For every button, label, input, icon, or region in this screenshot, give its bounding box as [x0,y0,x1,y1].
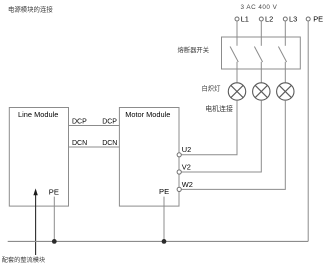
svg-text:PE: PE [49,188,59,197]
PE bus wire [8,240,309,242]
wire lamp E1 to U2 [181,100,237,155]
svg-text:L2: L2 [265,15,273,24]
wire PE vertical [307,21,309,241]
junction dot Motor PE [162,239,167,244]
svg-text:配套的整流模块: 配套的整流模块 [2,256,45,264]
svg-text:熔断器开关: 熔断器开关 [178,45,210,54]
svg-text:DCP: DCP [102,119,117,126]
switch S2 [254,37,262,69]
fuse-switch box [222,37,301,69]
node L1 terminal [235,17,239,21]
wire DCN [69,146,120,148]
svg-text:DCN: DCN [102,140,117,147]
svg-text:DCP: DCP [72,119,87,126]
svg-text:Line Module: Line Module [18,110,58,119]
svg-text:W2: W2 [182,180,193,189]
svg-text:L1: L1 [241,15,249,24]
switch S1 [230,37,238,69]
svg-text:Motor Module: Motor Module [125,110,170,119]
node L3 terminal [283,17,287,21]
svg-text:电机连接: 电机连接 [205,104,233,113]
switch S3 [278,37,286,69]
svg-text:U2: U2 [182,145,191,154]
svg-text:电源模块的连接: 电源模块的连接 [8,5,53,14]
wire L1 to switch box [236,21,238,37]
lamp E2 [253,83,270,100]
wire lamp E3 to W2 [181,100,285,189]
wire L2 to switch box [260,21,262,37]
svg-text:PE: PE [313,15,323,24]
wire L3 to switch box [284,21,286,37]
Line Module box [9,108,68,207]
Motor Module box [119,108,179,207]
wire PE of Motor Module to bus [163,197,165,242]
wire lamp E2 to V2 [181,100,261,172]
node PE terminal [306,17,310,21]
lamp E3 [277,83,294,100]
svg-text:L3: L3 [289,15,297,24]
svg-text:PE: PE [159,187,169,196]
node L2 terminal [259,17,263,21]
wire DCP [69,125,120,127]
svg-text:3 AC 400 V: 3 AC 400 V [241,4,278,11]
lamp E1 [228,83,245,100]
junction dot Line PE [52,239,57,244]
wire PE of Line Module to bus [53,197,55,242]
svg-text:V2: V2 [182,163,191,172]
arrow to matching module [35,194,37,255]
svg-text:DCN: DCN [72,140,87,147]
svg-text:白炽灯: 白炽灯 [202,84,222,93]
wire switch box to lamps [236,69,238,83]
